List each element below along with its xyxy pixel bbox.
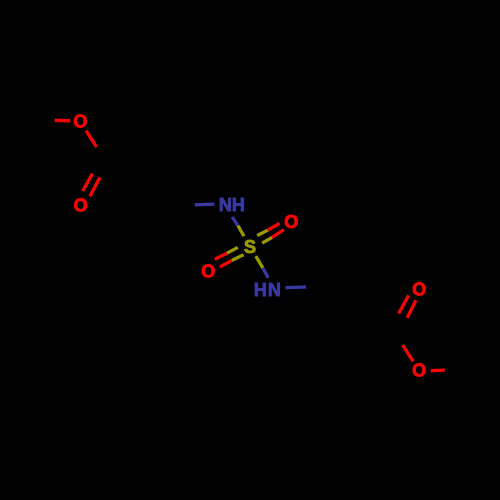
svg-text:N: N: [268, 280, 281, 300]
bond C7-O7 (red half): [403, 345, 414, 361]
bond S-N2 olive half: [256, 256, 263, 268]
bond C7=O6 offset line (red half): [399, 295, 409, 313]
svg-text:NH: NH: [219, 195, 245, 215]
bond S=O4 main line olive half: [262, 237, 272, 243]
bond S=O5 offset line olive half: [227, 247, 238, 253]
bond CH2-N1 (blue half): [195, 202, 215, 206]
bond S=O4 offset line red half: [268, 223, 280, 230]
svg-text:O: O: [73, 111, 87, 131]
bond S=O5 main line red half: [220, 260, 232, 267]
svg-text:O: O: [412, 279, 426, 299]
bond S-N2 blue half: [263, 268, 268, 278]
svg-text:O: O: [201, 261, 215, 281]
svg-text:O: O: [412, 361, 426, 381]
svg-text:O: O: [74, 196, 88, 216]
bond S=O5 main line olive half: [232, 255, 244, 261]
bond S=O4 offset line olive half: [257, 230, 268, 235]
bond N2-CH2 (blue half): [286, 285, 307, 289]
svg-text:S: S: [244, 237, 256, 257]
bond O7-CH3 (red half): [431, 368, 445, 372]
svg-text:H: H: [254, 280, 267, 300]
bond N1-S olive half: [238, 226, 244, 237]
bond S=O4 main line red half: [272, 230, 284, 238]
bond C7=O6 main line (red half): [407, 300, 416, 318]
bond CH3-O1 (red half): [55, 119, 70, 123]
bond C2=O3 offset line (red half): [83, 174, 93, 191]
bond C2=O3 main line (red half): [90, 177, 100, 196]
bond S=O5 offset line red half: [215, 253, 227, 259]
bond N1-S blue half: [232, 217, 238, 226]
svg-text:O: O: [284, 212, 298, 232]
bond O1-C2 (red half): [86, 131, 97, 147]
